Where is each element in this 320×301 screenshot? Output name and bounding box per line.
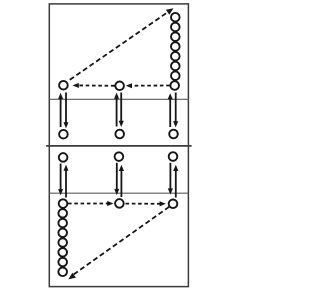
arrow down bottom-middle column shaft: [116, 163, 118, 190]
arrowhead down top-right column: [173, 121, 178, 127]
player stack top-right 3: [171, 32, 180, 41]
arrow up top-left column shaft: [60, 97, 62, 127]
dashed arrow right-to-middle shaft top: [131, 85, 170, 87]
player top attack row middle: [115, 130, 124, 139]
player stack top-right 2: [171, 23, 180, 32]
player stack bottom-left 6: [58, 258, 67, 267]
arrowhead up top-right column: [168, 93, 173, 99]
arrow up top-right column shaft: [169, 97, 171, 127]
player stack top-right 6: [171, 62, 180, 71]
arrow up bottom-middle column shaft: [120, 170, 122, 197]
dashed arrow middle-to-left shaft top: [78, 84, 115, 86]
player bottom net row left: [59, 153, 68, 162]
player stack top-right 7: [171, 71, 180, 80]
arrow up bottom-right column shaft: [175, 170, 177, 197]
arrowhead up bottom-right column: [173, 165, 178, 171]
arrow down top-middle column shaft: [120, 93, 122, 122]
arrowhead up top-left column: [58, 93, 63, 99]
arrowhead left at top left circle: [73, 83, 79, 88]
arrowhead up top-middle column: [114, 93, 119, 99]
player stack bottom-left 4: [58, 238, 67, 247]
arrowhead diagonal top-right corner: [166, 8, 174, 15]
player bottom row left: [59, 199, 68, 208]
arrow down top-right column shaft: [175, 93, 177, 122]
arrowhead diagonal bottom-left corner: [68, 273, 76, 280]
player stack bottom-left 2: [58, 219, 67, 228]
court outline: [49, 4, 188, 287]
arrowhead up bottom-left column: [64, 165, 69, 171]
arrowhead down top-middle column: [119, 121, 124, 127]
player stack bottom-left 7: [58, 268, 67, 277]
arrowhead down bottom-left column: [58, 189, 63, 195]
arrowhead down bottom-middle column: [114, 189, 119, 195]
player stack bottom-left 1: [58, 209, 67, 218]
attack line top: [49, 98, 188, 100]
player stack bottom-left 5: [58, 248, 67, 257]
arrowhead down top-left column: [64, 122, 69, 128]
player bottom net row right: [169, 152, 178, 161]
player bottom row middle: [115, 199, 124, 208]
player bottom row right: [169, 200, 178, 209]
arrowhead right at bottom right circle: [160, 201, 166, 206]
player top row middle: [115, 82, 124, 91]
net line: [46, 145, 191, 147]
arrowhead left at top middle circle: [126, 83, 132, 88]
arrow down bottom-right column shaft: [169, 163, 171, 189]
arrowhead up bottom-middle column: [119, 165, 124, 171]
arrow up top-middle column shaft: [116, 97, 118, 127]
player stack top-right 1: [171, 13, 180, 22]
player stack bottom-left 3: [58, 229, 67, 238]
arrowhead down bottom-right column: [168, 188, 173, 194]
dashed diagonal shaft top: [70, 11, 169, 80]
dashed arrow middle-to-right shaft bottom: [126, 203, 162, 205]
player top attack row right: [169, 130, 178, 139]
dashed arrow left-to-middle shaft bottom: [68, 203, 109, 205]
arrowhead right at bottom middle circle: [107, 201, 113, 206]
player top row right: [170, 81, 179, 90]
player stack top-right 5: [171, 52, 180, 61]
player top row left: [59, 81, 68, 90]
arrow up bottom-left column shaft: [65, 170, 67, 197]
player bottom net row middle: [115, 152, 124, 161]
attack line bottom: [49, 192, 188, 194]
dashed diagonal shaft bottom: [73, 207, 169, 275]
arrow down bottom-left column shaft: [60, 164, 62, 190]
player stack top-right 4: [171, 42, 180, 51]
player top attack row left: [59, 130, 68, 139]
arrow down top-left column shaft: [65, 93, 67, 123]
